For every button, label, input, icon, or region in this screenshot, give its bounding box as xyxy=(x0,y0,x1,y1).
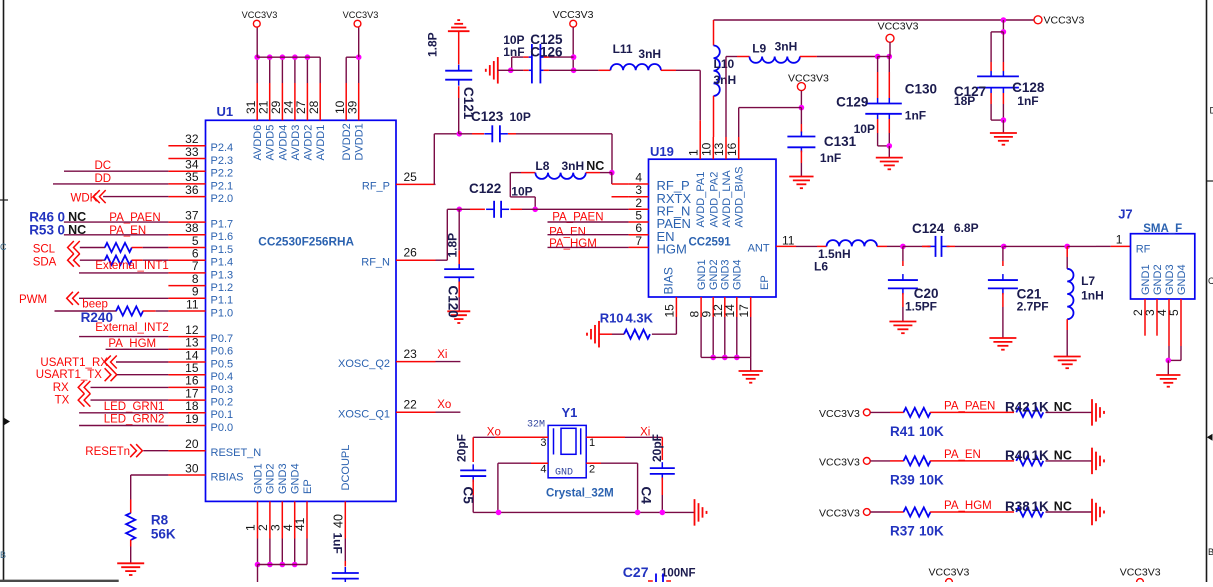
svg-text:36: 36 xyxy=(185,183,199,197)
svg-text:20: 20 xyxy=(185,437,199,451)
svg-text:4.3K: 4.3K xyxy=(626,311,654,326)
svg-text:3nH: 3nH xyxy=(714,73,737,87)
svg-text:25: 25 xyxy=(404,170,418,184)
svg-text:15: 15 xyxy=(663,304,677,318)
svg-text:R41: R41 xyxy=(890,424,915,439)
svg-text:L6: L6 xyxy=(814,260,828,274)
svg-text:RF: RF xyxy=(1136,244,1151,256)
svg-text:2: 2 xyxy=(589,463,595,475)
svg-text:AVDD_LNA: AVDD_LNA xyxy=(721,170,733,228)
svg-text:B: B xyxy=(1208,547,1213,557)
svg-text:GND3: GND3 xyxy=(720,259,732,290)
svg-text:1K: 1K xyxy=(1032,499,1050,514)
svg-text:beep: beep xyxy=(82,299,108,311)
svg-text:B: B xyxy=(0,550,6,560)
svg-text:11: 11 xyxy=(782,234,795,248)
svg-text:22: 22 xyxy=(404,398,418,412)
svg-text:C124: C124 xyxy=(912,221,945,236)
svg-text:RESET_N: RESET_N xyxy=(211,447,262,459)
svg-text:100NF: 100NF xyxy=(661,568,696,580)
svg-text:C: C xyxy=(0,242,7,252)
svg-text:GND4: GND4 xyxy=(1176,264,1188,295)
svg-text:28: 28 xyxy=(307,100,321,114)
svg-text:0: 0 xyxy=(58,222,66,237)
svg-text:P0.0: P0.0 xyxy=(211,422,234,434)
svg-text:PA_HGM: PA_HGM xyxy=(549,238,597,250)
svg-text:P0.1: P0.1 xyxy=(211,409,234,421)
svg-text:USART1_RX: USART1_RX xyxy=(40,357,108,369)
svg-text:VCC3V3: VCC3V3 xyxy=(343,10,379,20)
svg-text:VCC3V3: VCC3V3 xyxy=(1044,15,1085,27)
svg-text:L11: L11 xyxy=(613,42,633,56)
svg-text:BIAS: BIAS xyxy=(661,267,675,294)
svg-text:GND4: GND4 xyxy=(290,463,302,494)
svg-text:PA_EN: PA_EN xyxy=(549,226,586,238)
svg-text:CC2591: CC2591 xyxy=(689,237,732,249)
svg-text:1K: 1K xyxy=(1032,448,1050,463)
svg-text:VCC3V3: VCC3V3 xyxy=(788,72,829,84)
svg-text:L10: L10 xyxy=(714,57,735,71)
svg-text:C: C xyxy=(1208,276,1213,286)
svg-text:L9: L9 xyxy=(752,42,766,56)
svg-text:GND1: GND1 xyxy=(1140,264,1152,295)
svg-text:16: 16 xyxy=(725,142,739,156)
svg-text:26: 26 xyxy=(404,246,418,260)
svg-text:RF_N: RF_N xyxy=(361,256,390,268)
svg-text:P1.7: P1.7 xyxy=(211,219,234,231)
svg-text:VCC3V3: VCC3V3 xyxy=(242,10,278,20)
svg-text:10K: 10K xyxy=(919,524,944,539)
svg-text:19: 19 xyxy=(185,412,199,426)
svg-text:AVDD2: AVDD2 xyxy=(302,125,314,161)
svg-text:PA_PAEN: PA_PAEN xyxy=(944,400,995,412)
svg-text:AVDD_PA2: AVDD_PA2 xyxy=(708,172,720,228)
svg-text:XOSC_Q2: XOSC_Q2 xyxy=(338,358,390,370)
svg-text:P1.1: P1.1 xyxy=(211,295,234,307)
svg-text:XOSC_Q1: XOSC_Q1 xyxy=(338,408,390,420)
svg-text:R40: R40 xyxy=(1005,448,1030,463)
svg-text:P2.3: P2.3 xyxy=(211,155,234,167)
svg-text:32M: 32M xyxy=(527,420,545,431)
svg-text:R8: R8 xyxy=(151,513,169,528)
svg-text:GND3: GND3 xyxy=(1164,264,1176,295)
svg-text:1.8P: 1.8P xyxy=(446,233,460,258)
svg-text:VCC3V3: VCC3V3 xyxy=(819,408,860,420)
svg-text:CC2530F256RHA: CC2530F256RHA xyxy=(258,235,354,249)
svg-text:C129: C129 xyxy=(836,95,868,110)
svg-text:P1.3: P1.3 xyxy=(211,269,234,281)
svg-text:AVDD6: AVDD6 xyxy=(252,125,264,161)
svg-text:TX: TX xyxy=(55,395,70,407)
svg-text:L8: L8 xyxy=(535,159,549,173)
svg-text:P1.6: P1.6 xyxy=(211,231,234,243)
svg-text:Y1: Y1 xyxy=(562,405,578,420)
svg-text:SCL: SCL xyxy=(33,244,56,256)
svg-text:NC: NC xyxy=(1054,448,1072,462)
svg-text:USART1_TX: USART1_TX xyxy=(36,369,103,381)
svg-text:AVDD_PA1: AVDD_PA1 xyxy=(695,172,707,228)
svg-text:41: 41 xyxy=(293,517,307,531)
svg-text:1nF: 1nF xyxy=(820,151,841,165)
svg-text:P0.6: P0.6 xyxy=(211,346,234,358)
svg-text:C130: C130 xyxy=(905,81,937,96)
svg-text:C122: C122 xyxy=(469,181,501,196)
svg-text:1uF: 1uF xyxy=(331,533,345,554)
svg-text:VCC3V3: VCC3V3 xyxy=(878,20,919,32)
svg-text:DC: DC xyxy=(95,160,112,172)
svg-text:RESETn: RESETn xyxy=(85,446,130,458)
svg-text:C27: C27 xyxy=(623,564,649,580)
svg-text:AVDD1: AVDD1 xyxy=(315,125,327,161)
svg-text:7: 7 xyxy=(635,234,642,248)
svg-text:Xi: Xi xyxy=(437,349,447,361)
svg-text:VCC3V3: VCC3V3 xyxy=(929,567,970,579)
svg-text:Xo: Xo xyxy=(487,426,501,438)
svg-text:P2.4: P2.4 xyxy=(211,142,234,154)
svg-text:GND2: GND2 xyxy=(708,259,720,290)
svg-text:1: 1 xyxy=(589,437,595,449)
svg-text:10K: 10K xyxy=(919,472,944,487)
svg-text:C123: C123 xyxy=(471,109,504,124)
svg-text:Crystal_32M: Crystal_32M xyxy=(546,488,614,500)
svg-text:2.7PF: 2.7PF xyxy=(1017,300,1049,314)
svg-text:J7: J7 xyxy=(1118,207,1132,222)
svg-text:SDA: SDA xyxy=(33,257,57,269)
svg-text:P1.5: P1.5 xyxy=(211,244,234,256)
svg-text:D: D xyxy=(1210,106,1213,116)
svg-text:EP: EP xyxy=(302,479,314,494)
svg-text:1: 1 xyxy=(686,149,700,156)
svg-text:P2.0: P2.0 xyxy=(211,193,234,205)
svg-text:56K: 56K xyxy=(151,526,176,541)
svg-text:4: 4 xyxy=(540,463,546,475)
svg-text:P0.5: P0.5 xyxy=(211,358,234,370)
svg-text:10K: 10K xyxy=(919,424,944,439)
svg-text:P0.7: P0.7 xyxy=(211,333,234,345)
svg-text:Xi: Xi xyxy=(640,426,650,438)
svg-text:VCC3V3: VCC3V3 xyxy=(819,508,860,520)
svg-text:RBIAS: RBIAS xyxy=(211,471,244,483)
svg-text:R53: R53 xyxy=(29,222,54,237)
svg-text:GND: GND xyxy=(555,468,573,479)
svg-text:10P: 10P xyxy=(854,122,875,136)
svg-text:VCC3V3: VCC3V3 xyxy=(819,456,860,468)
svg-text:14: 14 xyxy=(723,304,737,318)
svg-text:1: 1 xyxy=(1116,233,1123,247)
svg-text:AVDD3: AVDD3 xyxy=(290,125,302,161)
svg-text:VCC3V3: VCC3V3 xyxy=(1120,567,1161,579)
svg-text:AVDD_BIAS: AVDD_BIAS xyxy=(734,167,746,228)
svg-text:23: 23 xyxy=(404,347,418,361)
svg-text:U19: U19 xyxy=(650,144,674,159)
svg-text:PA_HGM: PA_HGM xyxy=(108,338,156,350)
svg-text:NC: NC xyxy=(586,159,604,173)
svg-text:External_INT2: External_INT2 xyxy=(95,322,169,334)
svg-text:C5: C5 xyxy=(461,487,476,505)
svg-text:40: 40 xyxy=(332,514,346,528)
svg-text:RF_P: RF_P xyxy=(362,181,390,193)
svg-text:PA_HGM: PA_HGM xyxy=(944,500,992,512)
svg-text:R39: R39 xyxy=(890,472,915,487)
svg-text:P1.0: P1.0 xyxy=(211,307,234,319)
svg-text:PWM: PWM xyxy=(19,294,47,306)
svg-text:C4: C4 xyxy=(639,487,654,505)
svg-text:L7: L7 xyxy=(1081,274,1095,288)
svg-text:1nF: 1nF xyxy=(905,109,926,123)
svg-text:39: 39 xyxy=(346,100,360,114)
svg-text:DVDD2: DVDD2 xyxy=(341,123,353,160)
svg-text:10P: 10P xyxy=(510,110,531,124)
svg-text:GND1: GND1 xyxy=(696,259,708,290)
svg-text:20pF: 20pF xyxy=(455,434,469,462)
svg-text:10P: 10P xyxy=(511,185,532,199)
svg-text:GND2: GND2 xyxy=(1152,264,1164,295)
svg-text:P0.4: P0.4 xyxy=(211,371,234,383)
svg-text:1nF: 1nF xyxy=(1017,94,1038,108)
svg-text:ANT: ANT xyxy=(748,243,770,255)
svg-text:NC: NC xyxy=(1054,400,1072,414)
svg-text:30: 30 xyxy=(185,461,199,475)
svg-text:P1.4: P1.4 xyxy=(211,257,234,269)
svg-text:20pF: 20pF xyxy=(650,434,664,462)
svg-text:DD: DD xyxy=(95,173,112,185)
svg-text:GND1: GND1 xyxy=(252,463,264,494)
svg-text:AVDD5: AVDD5 xyxy=(265,125,277,161)
svg-text:R42: R42 xyxy=(1005,400,1030,415)
svg-text:SMA_F: SMA_F xyxy=(1143,223,1182,235)
svg-text:3: 3 xyxy=(540,437,546,449)
svg-text:R10: R10 xyxy=(600,311,624,326)
svg-text:NC: NC xyxy=(1054,500,1072,514)
svg-text:AVDD4: AVDD4 xyxy=(277,125,289,161)
svg-text:6.8P: 6.8P xyxy=(954,221,979,235)
svg-text:GND2: GND2 xyxy=(265,463,277,494)
svg-text:R37: R37 xyxy=(890,524,915,539)
svg-text:P2.2: P2.2 xyxy=(211,168,234,180)
svg-text:3nH: 3nH xyxy=(638,47,661,61)
svg-text:C131: C131 xyxy=(824,134,857,149)
svg-text:P0.3: P0.3 xyxy=(211,384,234,396)
svg-text:1.5PF: 1.5PF xyxy=(905,300,937,314)
svg-text:1nH: 1nH xyxy=(1081,289,1104,303)
svg-text:R38: R38 xyxy=(1005,499,1030,514)
svg-text:1nF: 1nF xyxy=(503,45,524,59)
svg-text:LED_GRN1: LED_GRN1 xyxy=(104,401,165,413)
svg-text:1.8P: 1.8P xyxy=(426,32,440,57)
svg-text:VCC3V3: VCC3V3 xyxy=(553,9,594,21)
svg-text:LED_GRN2: LED_GRN2 xyxy=(104,414,165,426)
svg-text:WDK: WDK xyxy=(71,193,98,205)
svg-text:P1.2: P1.2 xyxy=(211,282,234,294)
svg-text:1K: 1K xyxy=(1032,400,1050,415)
svg-text:C126: C126 xyxy=(530,44,563,59)
svg-text:17: 17 xyxy=(737,304,751,318)
svg-text:C120: C120 xyxy=(446,286,461,318)
svg-text:GND3: GND3 xyxy=(277,463,289,494)
svg-text:PA_EN: PA_EN xyxy=(944,449,981,461)
svg-text:HGM: HGM xyxy=(657,242,687,257)
svg-text:RX: RX xyxy=(53,382,69,394)
svg-text:DVDD1: DVDD1 xyxy=(354,123,366,160)
svg-text:C128: C128 xyxy=(1012,80,1045,95)
svg-text:18P: 18P xyxy=(954,94,975,108)
svg-text:11: 11 xyxy=(186,297,199,311)
svg-text:P2.1: P2.1 xyxy=(211,180,234,192)
svg-text:3nH: 3nH xyxy=(775,40,798,54)
svg-text:3nH: 3nH xyxy=(562,159,585,173)
svg-text:DCOUPL: DCOUPL xyxy=(340,445,352,491)
svg-text:GND4: GND4 xyxy=(732,259,744,290)
svg-text:EP: EP xyxy=(759,275,771,290)
svg-text:U1: U1 xyxy=(217,104,234,119)
svg-text:External_INT1: External_INT1 xyxy=(95,260,169,272)
svg-text:Xo: Xo xyxy=(437,399,451,411)
svg-text:P0.2: P0.2 xyxy=(211,397,234,409)
